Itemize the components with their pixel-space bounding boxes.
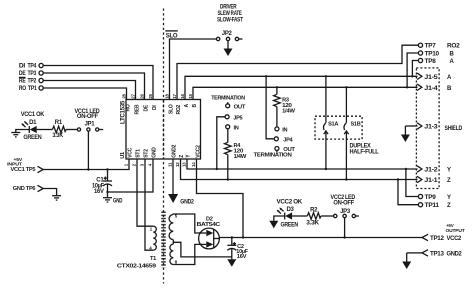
pin number 16	[180, 93, 185, 98]
svg-text:S1B: S1B	[351, 122, 361, 128]
pin name Z	[179, 155, 185, 158]
svg-text:Y: Y	[447, 195, 451, 201]
svg-text:TP3: TP3	[28, 71, 37, 77]
wire TP10 branch from B rail	[406, 53, 419, 89]
svg-text:SLO: SLO	[169, 104, 175, 114]
svg-text:27: 27	[131, 93, 136, 98]
svg-text:SHIELD: SHIELD	[445, 126, 463, 132]
connector pin J1-1 Z	[417, 176, 451, 184]
jumper JP3	[334, 209, 359, 238]
resistor R1 3.3K	[52, 120, 77, 139]
svg-text:CTX02-14659: CTX02-14659	[117, 263, 156, 269]
test point TP11	[418, 203, 451, 210]
svg-text:GND: GND	[113, 198, 123, 204]
svg-text:26: 26	[140, 93, 145, 98]
pin number 12	[175, 162, 180, 167]
svg-text:R2: R2	[310, 208, 318, 214]
svg-text:IN: IN	[234, 125, 239, 131]
svg-text:18: 18	[165, 93, 170, 98]
svg-text:ST1: ST1	[136, 149, 142, 158]
wire DI TP4 to U1 pin 25	[43, 66, 153, 100]
pin name SLO	[169, 104, 175, 114]
svg-text:Y: Y	[447, 168, 451, 174]
ground GND2 arrow (D3)	[269, 216, 284, 228]
svg-text:TP11: TP11	[425, 203, 440, 209]
pin number 11	[168, 162, 173, 167]
wire VCC1 rail: TP5 to U1 pin 1	[43, 159, 129, 171]
pin name VCC2	[196, 145, 202, 158]
svg-text:25: 25	[148, 93, 153, 98]
svg-text:Z: Z	[179, 155, 185, 158]
wire T1 center tap to C2 ground node	[173, 242, 232, 257]
svg-text:TP2: TP2	[28, 79, 37, 85]
svg-text:SLEW RATE: SLEW RATE	[218, 11, 242, 17]
svg-text:JP1: JP1	[85, 121, 96, 127]
pin number 13	[182, 162, 187, 167]
jumper JP1	[77, 121, 103, 169]
svg-text:3.3K: 3.3K	[52, 133, 63, 139]
connector TP5 +5V input	[7, 157, 43, 173]
pin name DE	[144, 104, 150, 111]
jumper JP4 OUT position	[275, 147, 296, 153]
label VCC2 OK	[277, 200, 303, 206]
label TERMINATION (A-B side)	[254, 153, 292, 159]
pin number 15	[188, 93, 193, 98]
capacitor C2 10uF 16V	[227, 238, 248, 260]
svg-text:JP4: JP4	[283, 138, 293, 144]
jumper JP2	[216, 31, 242, 41]
svg-text:RO: RO	[126, 104, 132, 111]
label DRIVER SLEW RATE SLOW-FAST	[217, 5, 243, 24]
isolation barrier dashed line	[163, 9, 165, 284]
pin number 17	[172, 93, 177, 98]
capacitor C1 10uF 16V	[92, 170, 112, 195]
svg-text:TERMINATION: TERMINATION	[254, 153, 292, 159]
connector pin J1-2 Y	[417, 166, 451, 174]
pin name ST2	[144, 149, 150, 158]
svg-text:OUT: OUT	[234, 104, 246, 110]
wire Z rail: U1 pin 12 to J1-1	[181, 159, 418, 180]
test point TP2 (RE with overline)	[19, 77, 43, 84]
wire Y rail: U1 pin 13 to J1-2	[187, 159, 418, 169]
svg-text:14: 14	[191, 162, 196, 167]
wire TP11 branch from Z rail	[397, 178, 419, 204]
svg-text:D3: D3	[287, 207, 295, 213]
jumper JP5 OUT position	[226, 102, 246, 110]
jumper JP5 center	[216, 115, 243, 170]
jumper JP4 center	[265, 75, 294, 143]
connector TP6 GND	[13, 185, 43, 192]
wire VCC2 rail: D2 cathode to TP12	[219, 236, 422, 238]
wire VCC2 net: U1 pin 14 routed to VCC2 rail	[197, 159, 244, 238]
svg-text:TERMINATION: TERMINATION	[211, 96, 245, 102]
transformer T1 secondary winding bottom	[170, 240, 178, 265]
test point TP1	[19, 86, 43, 92]
pin number 28	[122, 93, 127, 98]
svg-text:VCC: VCC	[128, 147, 134, 157]
svg-text:17: 17	[172, 93, 177, 98]
svg-text:TP7: TP7	[425, 44, 437, 50]
pin number 2	[132, 163, 137, 166]
svg-text:HALF-FULL: HALF-FULL	[350, 150, 380, 156]
svg-text:28: 28	[122, 93, 127, 98]
svg-text:TP12: TP12	[430, 236, 445, 242]
svg-text:U1: U1	[120, 152, 126, 159]
ground GND2 arrow (C2)	[227, 259, 236, 267]
wire RE TP2 to U1 pin 27	[43, 81, 135, 100]
transformer T1 core	[161, 212, 166, 268]
label VCC1 LED ON-OFF	[75, 109, 101, 120]
svg-text:OUTPUT: OUTPUT	[446, 228, 465, 234]
svg-text:VCC2 OK: VCC2 OK	[277, 200, 303, 206]
wire RO TP1 to U1 pin 28	[43, 88, 126, 100]
pin name Y	[186, 154, 192, 158]
pin name RO2	[176, 105, 182, 115]
wire A rail: U1 pin 16 to J1-5	[185, 76, 418, 99]
diode D2 BAT54C dual schottky	[197, 217, 221, 249]
svg-text:SLOW-FAST: SLOW-FAST	[217, 18, 243, 24]
transformer T1 secondary winding top	[169, 214, 178, 240]
svg-text:13: 13	[182, 162, 187, 167]
label GREEN (D3)	[281, 223, 299, 229]
svg-text:TP10: TP10	[425, 52, 440, 58]
label +5V OUTPUT	[446, 223, 465, 234]
resistor R2 3.3K	[306, 208, 333, 227]
svg-text:GND TP6: GND TP6	[13, 186, 36, 192]
svg-text:RO: RO	[19, 86, 27, 92]
svg-text:DE: DE	[144, 104, 150, 111]
svg-text:RE: RE	[19, 79, 26, 85]
svg-text:ST2: ST2	[144, 149, 150, 158]
connector J1 dashed outline	[416, 68, 439, 189]
svg-text:VCC1 OK: VCC1 OK	[21, 112, 45, 118]
op IC U1 LTC1535 body	[126, 100, 201, 160]
wire ST1: U1 pin 2 to T1 primary top	[137, 159, 153, 226]
svg-text:TP9: TP9	[425, 195, 437, 201]
test point TP7	[418, 43, 460, 50]
label T1 CTX02-14659	[117, 256, 156, 270]
svg-text:S1A: S1A	[328, 122, 338, 128]
test point TP4	[19, 63, 43, 69]
ground GND2 arrow (J1-3 shield)	[401, 126, 410, 142]
svg-text:JP2: JP2	[222, 31, 233, 37]
svg-text:DI: DI	[19, 64, 26, 70]
pin name ST1	[136, 149, 142, 158]
wire SLO net: U1 pin 18 to JP2	[170, 39, 217, 100]
svg-text:SLO: SLO	[166, 33, 178, 39]
resistor R3 120 1/4W	[274, 86, 296, 127]
ground (C1)	[103, 192, 123, 204]
pin name GND2	[172, 144, 178, 157]
svg-text:11: 11	[168, 162, 173, 167]
test point TP3	[19, 71, 43, 77]
svg-text:IN: IN	[282, 127, 287, 133]
svg-text:DE: DE	[19, 71, 26, 77]
svg-text:T1: T1	[150, 256, 156, 262]
connector pin J1-4 B	[417, 84, 452, 92]
svg-text:TP8: TP8	[425, 59, 437, 65]
ground GND2 arrow (JP2)	[224, 41, 233, 56]
label LTC1535	[120, 100, 126, 124]
svg-text:REB: REB	[135, 104, 141, 114]
LED D1 green	[21, 121, 52, 133]
pin number 3	[140, 163, 145, 166]
jumper JP4 IN position	[275, 127, 288, 133]
svg-text:GND: GND	[152, 147, 158, 158]
svg-text:BAT54C: BAT54C	[197, 222, 221, 228]
label U1	[120, 152, 126, 159]
pin name GND	[152, 147, 158, 158]
svg-text:ON-OFF: ON-OFF	[77, 114, 99, 120]
pin name B	[192, 104, 198, 108]
label TERMINATION (Y-Z side)	[211, 96, 245, 102]
wire B rail: U1 pin 15 to J1-4	[193, 87, 418, 99]
resistor R4 120 1/4W	[225, 129, 248, 181]
svg-text:J1-2: J1-2	[424, 168, 438, 174]
LED D1 label	[29, 120, 37, 126]
wire T1 secondary bottom to D2 anode	[173, 244, 206, 264]
duplex dashed box	[315, 116, 362, 139]
svg-text:16V: 16V	[94, 189, 104, 195]
svg-text:VCC1 TP5: VCC1 TP5	[11, 167, 36, 173]
wire ST2: U1 pin 3 to T1 primary bottom	[145, 159, 153, 250]
pin name VCC	[128, 147, 134, 157]
connector pin J1-3 SHIELD	[405, 123, 462, 132]
label VCC1 OK	[21, 112, 45, 118]
switch S1A	[323, 75, 338, 170]
test point TP9	[418, 194, 451, 201]
LED D3 green	[277, 207, 308, 219]
pin number 27	[131, 93, 136, 98]
label GREEN (D1)	[23, 135, 41, 141]
pin number 4	[148, 163, 153, 166]
wire RO2 net: U1 pin 17 to TP7	[177, 45, 418, 99]
svg-text:ON-OFF: ON-OFF	[333, 200, 354, 206]
svg-text:JP5: JP5	[233, 115, 242, 121]
wire TP8 branch from A rail	[411, 61, 418, 78]
pin number 18	[165, 93, 170, 98]
wire DE TP3 to U1 pin 26	[43, 73, 144, 100]
svg-text:RO2: RO2	[176, 105, 182, 115]
switch S1B	[344, 86, 361, 181]
test point TP8	[418, 58, 454, 65]
pin number 1	[124, 163, 129, 166]
jumper JP5 IN position	[226, 125, 239, 132]
transformer T1 primary winding	[149, 226, 156, 251]
svg-text:J1-5: J1-5	[424, 75, 438, 81]
label DUPLEX HALF-FULL	[350, 144, 380, 156]
wire TP9 branch from Y rail	[405, 168, 419, 197]
svg-text:R1: R1	[55, 120, 63, 126]
svg-text:1/4W: 1/4W	[234, 154, 248, 160]
ground (TP6)	[43, 189, 61, 201]
svg-text:D1: D1	[29, 120, 37, 126]
svg-text:16V: 16V	[237, 254, 247, 260]
svg-text:RO2: RO2	[447, 44, 460, 50]
svg-text:16: 16	[180, 93, 185, 98]
ground GND2 arrow (U1 pin 11)	[168, 159, 194, 205]
svg-text:GREEN: GREEN	[281, 223, 299, 229]
svg-text:J1-3: J1-3	[424, 125, 438, 131]
svg-text:VCC2: VCC2	[447, 236, 462, 242]
svg-text:GREEN: GREEN	[23, 135, 41, 141]
pin name A	[184, 104, 190, 108]
svg-text:J1-4: J1-4	[424, 86, 438, 92]
svg-text:3.3K: 3.3K	[306, 221, 320, 227]
svg-text:TP4: TP4	[28, 64, 37, 70]
connector TP12 VCC2 output	[422, 234, 462, 242]
svg-text:15: 15	[188, 93, 193, 98]
wire T1 secondary top to D2 anode	[173, 214, 206, 233]
pin name RO	[126, 104, 132, 111]
svg-text:TP13: TP13	[430, 251, 445, 257]
svg-text:J1-1: J1-1	[424, 178, 438, 184]
label SLO with overline	[165, 31, 178, 39]
svg-text:VCC2: VCC2	[196, 145, 202, 158]
svg-text:TP1: TP1	[28, 86, 37, 92]
ground GND2 arrow (TP13)	[402, 253, 411, 269]
pin name REB	[135, 104, 141, 114]
svg-text:GND2: GND2	[447, 251, 463, 257]
ground (D1 cathode)	[11, 130, 29, 137]
wire GND1: U1 pin 4 to C1 ground node	[106, 159, 153, 193]
svg-text:1/4W: 1/4W	[282, 109, 296, 115]
pin number 26	[140, 93, 145, 98]
isolation barrier dashes inside IC	[163, 101, 165, 159]
connector TP13 GND2	[407, 250, 463, 258]
pin number 14	[191, 162, 196, 167]
test point TP10	[418, 51, 454, 58]
pin number 25	[148, 93, 153, 98]
pin name DI	[152, 105, 158, 110]
connector pin J1-5 A	[417, 73, 452, 81]
svg-text:GND2: GND2	[172, 144, 178, 157]
LED D3 label	[287, 207, 295, 213]
svg-text:12: 12	[175, 162, 180, 167]
svg-text:GND2: GND2	[180, 199, 194, 205]
label VCC2 LED ON-OFF	[331, 195, 356, 206]
svg-text:DRIVER: DRIVER	[220, 5, 237, 11]
